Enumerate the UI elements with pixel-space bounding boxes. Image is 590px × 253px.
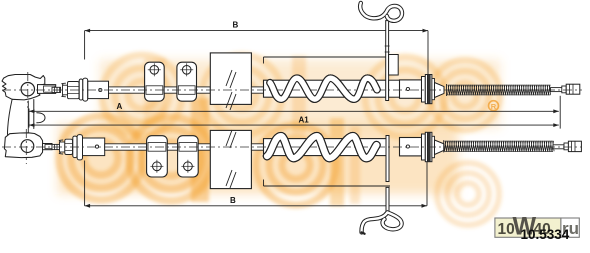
svg-text:A: A [117,102,123,111]
svg-text:10.5334: 10.5334 [521,227,570,242]
svg-text:A1: A1 [299,116,310,125]
svg-text:R: R [491,102,497,111]
svg-text:B: B [233,21,239,30]
svg-text:B: B [230,196,236,205]
